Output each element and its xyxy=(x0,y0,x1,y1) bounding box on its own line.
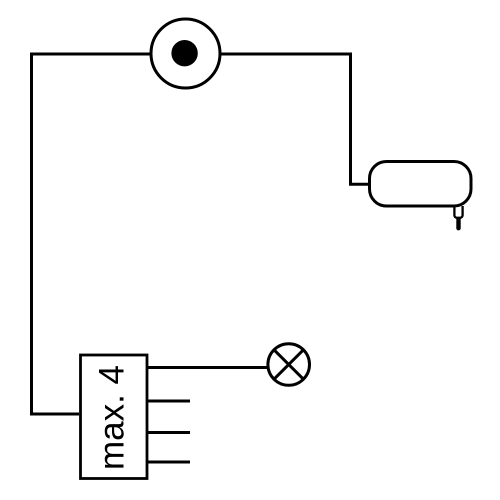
svg-text:max. 4: max. 4 xyxy=(93,365,132,470)
